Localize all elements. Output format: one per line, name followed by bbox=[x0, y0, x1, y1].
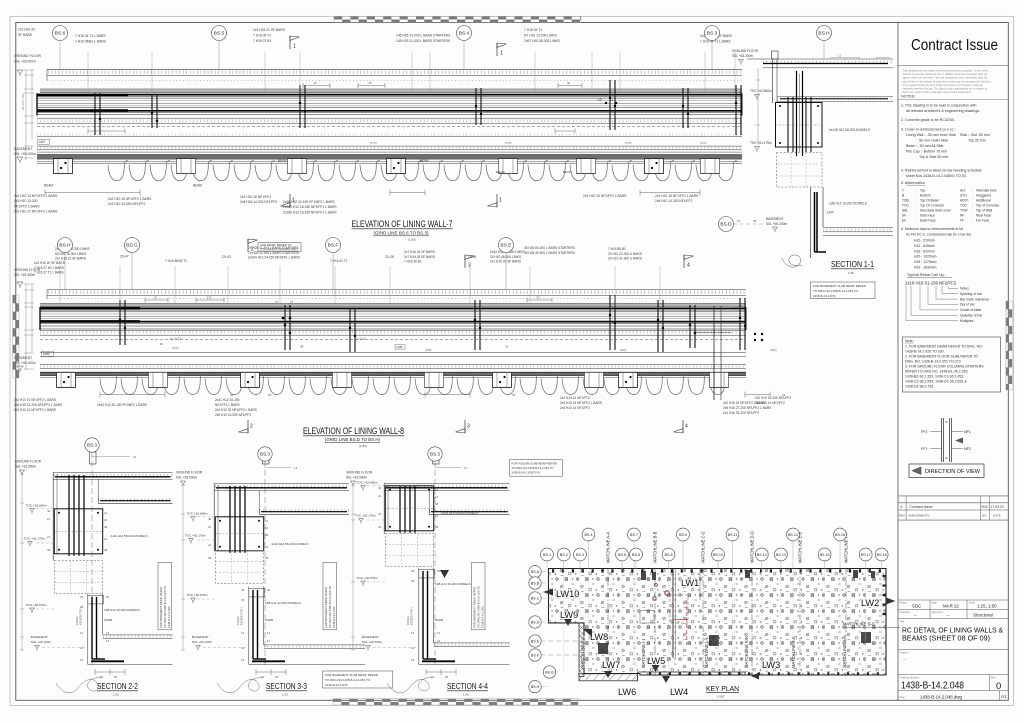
svg-text:13B H12 19-200 DOWELS: 13B H12 19-200 DOWELS bbox=[104, 608, 140, 612]
svg-text:expressly permitted by law. Th: expressly permitted by law. The doing of… bbox=[903, 87, 988, 91]
svg-text:BS.H: BS.H bbox=[531, 685, 540, 689]
svg-text:(GRID LINE BS.D TO BS.H): (GRID LINE BS.D TO BS.H) bbox=[325, 437, 380, 442]
svg-text::: : bbox=[972, 209, 973, 213]
svg-text:11: 11 bbox=[610, 98, 614, 102]
svg-text:Checked: Checked bbox=[900, 610, 911, 614]
svg-text:21: 21 bbox=[265, 519, 269, 523]
section 3-3 grid line bbox=[263, 452, 270, 668]
svg-text:2. Concrete grade to be RC32/4: 2. Concrete grade to be RC32/40. bbox=[901, 118, 955, 122]
svg-text:Rev:: Rev: bbox=[991, 676, 997, 680]
svg-text:2: 2 bbox=[251, 247, 254, 253]
svg-text:Near Face: Near Face bbox=[976, 214, 992, 218]
svg-text:21: 21 bbox=[265, 545, 269, 549]
svg-text:BS.F: BS.F bbox=[531, 653, 540, 657]
matchline labels inside plan bbox=[580, 622, 900, 669]
svg-text:2. FOR BASEMENT FLOOR SLAB REF: 2. FOR BASEMENT FLOOR SLAB REFER TO bbox=[905, 355, 978, 359]
svg-text:ALT.: ALT. bbox=[960, 189, 966, 193]
svg-text:21: 21 bbox=[435, 488, 439, 492]
elevation wall-8 leader lines bbox=[60, 266, 660, 307]
svg-text:7 H16 88 B1: 7 H16 88 B1 bbox=[608, 247, 626, 251]
key plan internal grid verticals bbox=[564, 569, 882, 673]
podium slab refer note box bbox=[510, 460, 563, 477]
svg-text:38: 38 bbox=[265, 556, 269, 560]
section 2-2 column box bbox=[54, 509, 102, 554]
svg-text:14: 14 bbox=[411, 646, 415, 650]
section 1-1 break line bbox=[782, 255, 802, 267]
svg-text:12: 12 bbox=[133, 455, 137, 459]
svg-text:BS.3: BS.3 bbox=[430, 452, 440, 457]
svg-text:20 H10 23-300 U BARS: 20 H10 23-300 U BARS bbox=[608, 252, 642, 256]
svg-text:6: 6 bbox=[901, 505, 903, 509]
section 1-1 basement slab right bbox=[823, 228, 893, 236]
svg-text:TOC +60.975m: TOC +60.975m bbox=[187, 593, 209, 597]
svg-text:DIRECTION OF VIEW: DIRECTION OF VIEW bbox=[925, 469, 981, 475]
svg-text:1:25: 1:25 bbox=[282, 693, 288, 697]
svg-text:21: 21 bbox=[378, 512, 382, 516]
svg-text:1:25: 1:25 bbox=[848, 271, 854, 275]
svg-text:BS.3: BS.3 bbox=[576, 553, 584, 557]
svg-text:TOC +62.170m: TOC +62.170m bbox=[185, 534, 207, 538]
svg-text:EF: EF bbox=[902, 219, 906, 223]
svg-text:N7 H10 13-200 LINKS: N7 H10 13-200 LINKS bbox=[524, 34, 558, 38]
svg-text:Contract Issue: Contract Issue bbox=[911, 37, 998, 54]
svg-text:2x2 H16 20: 2x2 H16 20 bbox=[18, 28, 35, 32]
svg-text:BEAM: BEAM bbox=[563, 170, 572, 174]
svg-text:2x2 H10 13 NF1/FF2 L BARS: 2x2 H10 13 NF1/FF2 L BARS bbox=[14, 408, 56, 412]
svg-text:(125): (125) bbox=[172, 346, 179, 350]
svg-text:SSL +60.100m: SSL +60.100m bbox=[14, 361, 36, 365]
svg-text:AMENDMENTS: AMENDMENTS bbox=[908, 514, 929, 518]
svg-text:(1:50): (1:50) bbox=[408, 238, 416, 242]
section 3-3 wall verticals and rebar bbox=[214, 484, 564, 553]
section 4-4 basement slab bbox=[419, 643, 510, 665]
svg-text::: : bbox=[972, 214, 973, 218]
svg-text:38: 38 bbox=[104, 548, 108, 552]
section 3-3 annotation texts bbox=[208, 466, 308, 662]
svg-text:SSL +63.500m: SSL +63.500m bbox=[346, 476, 367, 480]
svg-text:---: --- bbox=[903, 657, 906, 661]
svg-text:14: 14 bbox=[411, 631, 415, 635]
section 4-4 bottom dims bbox=[426, 669, 456, 679]
LWB tag mid elev2 bbox=[395, 345, 405, 350]
svg-text:LW7: LW7 bbox=[39, 140, 46, 144]
svg-text:3LWB: 3LWB bbox=[265, 618, 273, 622]
svg-text:TOC +60.975m: TOC +60.975m bbox=[357, 576, 379, 580]
rebar labels above elevation wall-8 bbox=[14, 246, 642, 277]
svg-text:BS.16: BS.16 bbox=[835, 533, 845, 537]
elevation wall-8 scallop break row bbox=[100, 374, 729, 395]
svg-text:Alternate bars: Alternate bars bbox=[976, 189, 997, 193]
svg-text:1: 1 bbox=[499, 198, 502, 204]
svg-text:FOR BASEMENT SLAB REINF REFER: FOR BASEMENT SLAB REINF REFER bbox=[813, 284, 867, 288]
svg-text:BEAM: BEAM bbox=[44, 184, 53, 188]
section 2-2 basement slab bbox=[88, 635, 173, 665]
svg-text:1. This drawing is to be read: 1. This drawing is to be read in conjunc… bbox=[901, 104, 976, 108]
svg-text:Each Face: Each Face bbox=[920, 219, 936, 223]
svg-text:2x8 H16 27-200 NF1/FF2 L BARS: 2x8 H16 27-200 NF1/FF2 L BARS bbox=[723, 406, 771, 410]
svg-text:21: 21 bbox=[47, 517, 51, 521]
elevation wall-7 lower beam zone bbox=[37, 118, 742, 136]
svg-text::: : bbox=[972, 204, 973, 208]
svg-text:1438-B-14.2.048.dwg: 1438-B-14.2.048.dwg bbox=[920, 694, 963, 699]
svg-text:BEAM: BEAM bbox=[420, 159, 429, 163]
svg-text:NF1: NF1 bbox=[964, 430, 971, 434]
svg-text:15: 15 bbox=[100, 675, 104, 679]
svg-text:BS.D: BS.D bbox=[720, 222, 732, 228]
svg-text:2x7 H16 34 SF BARS: 2x7 H16 34 SF BARS bbox=[404, 250, 435, 254]
section 3-3 stem wall bbox=[249, 587, 266, 665]
svg-text:Contract Issue: Contract Issue bbox=[909, 505, 932, 509]
section 4-4 grid line bbox=[433, 452, 440, 668]
svg-text:2x16 H16 01-150 NF2/FF2: 2x16 H16 01-150 NF2/FF2 bbox=[905, 281, 957, 286]
contract issue header bbox=[898, 37, 1008, 66]
dim rows below elevation wall-7 bbox=[45, 190, 700, 196]
svg-text:40: 40 bbox=[378, 486, 382, 490]
key plan left grid bubbles bbox=[529, 565, 549, 692]
svg-text:2x104 H12 34-150 NF2/FF1 L BAR: 2x104 H12 34-150 NF2/FF1 L BARS bbox=[248, 256, 300, 260]
svg-text:12: 12 bbox=[275, 301, 279, 305]
small dims above wall band elev2 bbox=[145, 296, 763, 350]
svg-text:BS.A: BS.A bbox=[531, 570, 540, 574]
svg-text:STG.: STG. bbox=[960, 194, 968, 198]
svg-text:Bar mark reference: Bar mark reference bbox=[960, 297, 989, 301]
svg-text:Side Face: Side Face bbox=[920, 214, 935, 218]
svg-text:21: 21 bbox=[47, 535, 51, 539]
svg-text:2x2 H10 17 NF1/FF2 L BARS: 2x2 H10 17 NF1/FF2 L BARS bbox=[14, 210, 58, 214]
svg-text:Top & Side 50 mm: Top & Side 50 mm bbox=[919, 155, 948, 159]
elevation wall-8 beam boxes bbox=[57, 372, 76, 387]
svg-text::: : bbox=[916, 199, 917, 203]
svg-text:(345): (345) bbox=[620, 348, 627, 352]
svg-text:Quantity of bar: Quantity of bar bbox=[960, 314, 983, 318]
svg-text:15: 15 bbox=[261, 675, 265, 679]
section 3-3 basement slab bbox=[249, 645, 365, 665]
svg-text:SECTION 3-3: SECTION 3-3 bbox=[266, 681, 307, 691]
basement label elev2 bbox=[14, 356, 36, 365]
svg-text:25: 25 bbox=[445, 675, 449, 679]
svg-text:1. FOR BASEMENT BEAM REFER TO: 1. FOR BASEMENT BEAM REFER TO DRG. NO bbox=[905, 345, 982, 349]
svg-text:TOC +62.170m: TOC +62.170m bbox=[24, 537, 46, 541]
svg-text:As Per EC-2, Compression lap 5: As Per EC-2, Compression lap 51 x bar di… bbox=[906, 233, 971, 237]
svg-text:BASEMENT: BASEMENT bbox=[192, 635, 209, 639]
dim column elev2 bbox=[24, 284, 34, 370]
section 1-1 footing dotted box bbox=[777, 153, 823, 188]
svg-text:7 H16 36 B1: 7 H16 36 B1 bbox=[404, 260, 422, 264]
svg-text:11: 11 bbox=[290, 301, 294, 305]
key plan matchlines bbox=[608, 569, 846, 677]
svg-text:2x7 H16 35 SF BARS: 2x7 H16 35 SF BARS bbox=[404, 255, 435, 259]
left checker strip bbox=[13, 295, 19, 378]
svg-text:12: 12 bbox=[598, 98, 602, 102]
svg-text:10: 10 bbox=[737, 219, 741, 223]
svg-text:SSL +60.100m: SSL +60.100m bbox=[14, 152, 36, 156]
svg-text:2x43 H12 25-150 FF1/NF2 L BARS: 2x43 H12 25-150 FF1/NF2 L BARS bbox=[97, 403, 147, 407]
section 3-3 vertical refer box bbox=[323, 562, 337, 629]
svg-text:1438-B-14.2.2/26: 1438-B-14.2.2/26 bbox=[332, 606, 336, 628]
svg-text:or by means without the prior: or by means without the prior written pe… bbox=[903, 83, 984, 87]
svg-text:FOR BASEMENT SLAB REINF REFER: FOR BASEMENT SLAB REINF REFER bbox=[325, 673, 379, 677]
svg-text:GB OPP SIM: GB OPP SIM bbox=[21, 93, 25, 110]
svg-text:BS.12: BS.12 bbox=[757, 553, 767, 557]
svg-text:3: 3 bbox=[468, 263, 471, 269]
paren labels elev1 bbox=[370, 141, 707, 145]
svg-text:Multiples: Multiples bbox=[960, 319, 974, 323]
svg-text:2x2 H10 16 NF1/FF3: 2x2 H10 16 NF1/FF3 bbox=[240, 195, 271, 199]
svg-text:1:25: 1:25 bbox=[463, 693, 469, 697]
svg-text::: : bbox=[972, 194, 973, 198]
svg-text:2x6 H10 14 NF1/FF2: 2x6 H10 14 NF1/FF2 bbox=[560, 406, 590, 410]
svg-text:BS.4: BS.4 bbox=[585, 533, 593, 537]
svg-text:Additional: Additional bbox=[976, 199, 991, 203]
svg-text:BY: BY bbox=[983, 514, 987, 518]
svg-text:BS.3: BS.3 bbox=[707, 31, 718, 37]
svg-text:21: 21 bbox=[435, 514, 439, 518]
svg-text:2x2 H10 14-200 NF1/FF2: 2x2 H10 14-200 NF1/FF2 bbox=[755, 396, 791, 400]
svg-text::: : bbox=[972, 189, 973, 193]
section flags elevation 1 bbox=[290, 36, 300, 50]
svg-text:(5): (5) bbox=[505, 345, 508, 349]
svg-text:Bottom: Bottom bbox=[920, 194, 931, 198]
svg-text:SSL +63.000m: SSL +63.000m bbox=[14, 60, 36, 64]
svg-text:Beam :- 50 mm All Side: Beam :- 50 mm All Side bbox=[906, 144, 944, 148]
svg-text:Date: Date bbox=[932, 601, 938, 605]
section 4-4 stem wall bbox=[419, 568, 436, 665]
svg-text:14: 14 bbox=[80, 631, 84, 635]
svg-text::: : bbox=[916, 219, 917, 223]
svg-text:LW8: LW8 bbox=[590, 632, 608, 642]
svg-text:NOTES:: NOTES: bbox=[901, 94, 915, 99]
svg-text:7 H16 41 T1: 7 H16 41 T1 bbox=[330, 259, 348, 263]
grid bubble BS.D bbox=[719, 217, 734, 232]
typical rebar call up bbox=[905, 273, 989, 323]
section 2-2 title bbox=[97, 681, 138, 697]
svg-text:BS.18: BS.18 bbox=[877, 553, 887, 557]
svg-text:SSL +60.300m: SSL +60.300m bbox=[766, 222, 787, 226]
refer note box (under section 1-1) bbox=[811, 282, 876, 299]
elevation wall-7 basement slab band bbox=[37, 146, 742, 164]
section 3-3 level dashed lines bbox=[197, 517, 249, 648]
key plan LW marker triangles bbox=[440, 570, 896, 683]
svg-text:1438-B-14.2.048: 1438-B-14.2.048 bbox=[901, 681, 964, 692]
svg-text:Drawn: Drawn bbox=[900, 601, 908, 605]
labels below elevation wall-8 bbox=[14, 396, 791, 417]
svg-text:2x2 H16 21 SF BARS: 2x2 H16 21 SF BARS bbox=[55, 257, 86, 261]
svg-text:BS.G: BS.G bbox=[126, 243, 138, 249]
matchline labels top bbox=[606, 531, 849, 563]
svg-text:MATCHLINE K-K: MATCHLINE K-K bbox=[744, 636, 749, 668]
svg-text:KICKER (TYP.): KICKER (TYP.) bbox=[410, 607, 414, 625]
svg-text:Approved: Approved bbox=[932, 610, 944, 614]
title block divider bbox=[897, 23, 899, 701]
svg-text:7 H16 04 T1 L BARS: 7 H16 04 T1 L BARS bbox=[700, 40, 731, 44]
svg-text:This drawing and any related n: This drawing and any related notes are p… bbox=[903, 69, 989, 73]
svg-text:SSL +60.100m: SSL +60.100m bbox=[31, 640, 52, 644]
svg-text:FF1: FF1 bbox=[921, 447, 927, 451]
section 4-4 level dashed lines bbox=[367, 486, 419, 648]
svg-text:2x41 H12 34-150: 2x41 H12 34-150 bbox=[215, 398, 240, 402]
svg-text:BEAMS (SHEET 08 OF 09): BEAMS (SHEET 08 OF 09) bbox=[902, 634, 990, 643]
svg-text:3. FOR GROUND FLOOR COLUMNS ST: 3. FOR GROUND FLOOR COLUMNS STARTERS bbox=[905, 365, 984, 369]
svg-text:Lining Wall :- 35 mm Inner Sid: Lining Wall :- 35 mm Inner Side bbox=[906, 133, 956, 137]
section 2-2 break line bbox=[56, 678, 102, 693]
svg-text:ELEVATION OF LINING WALL-8: ELEVATION OF LINING WALL-8 bbox=[303, 426, 404, 437]
svg-text:21: 21 bbox=[208, 543, 212, 547]
svg-text:LW3: LW3 bbox=[762, 660, 780, 670]
svg-text:TOC: TOC bbox=[960, 204, 968, 208]
svg-text:08: 08 bbox=[104, 525, 108, 529]
svg-text:BS.17: BS.17 bbox=[861, 553, 871, 557]
svg-text:NF1/FF2 L BARS: NF1/FF2 L BARS bbox=[14, 204, 40, 208]
svg-text:100mm: 100mm bbox=[236, 616, 240, 625]
svg-text:2x20 H12 58-200 DOWELS: 2x20 H12 58-200 DOWELS bbox=[111, 534, 148, 538]
svg-text:Top Of Beam: Top Of Beam bbox=[920, 199, 939, 203]
grid bubble BS.G keyplan bbox=[543, 666, 555, 678]
svg-text:15: 15 bbox=[431, 675, 435, 679]
svg-text:BS.3: BS.3 bbox=[260, 452, 270, 457]
columns starters ref box bbox=[258, 243, 301, 252]
section 3-3 left dim line bbox=[181, 485, 185, 650]
svg-text:Scale: Scale bbox=[969, 601, 976, 605]
svg-text:21: 21 bbox=[378, 494, 382, 498]
svg-text:2x2 H10 15 NF1/FF2 L BARS: 2x2 H10 15 NF1/FF2 L BARS bbox=[655, 194, 699, 198]
svg-text:LW2: LW2 bbox=[861, 598, 879, 608]
svg-text:2x3 H10 14-200 NF1/FF2: 2x3 H10 14-200 NF1/FF2 bbox=[108, 202, 146, 206]
svg-text:38: 38 bbox=[435, 525, 439, 529]
svg-text:12B H12 19-200 DOWELS: 12B H12 19-200 DOWELS bbox=[829, 202, 867, 206]
svg-text:FOR PODIUM SLAB REINF REFER: FOR PODIUM SLAB REINF REFER bbox=[512, 461, 557, 465]
svg-text:GROUND FLOOR: GROUND FLOOR bbox=[176, 471, 203, 475]
svg-text:SECTION 1-1: SECTION 1-1 bbox=[831, 260, 874, 269]
svg-text:10: 10 bbox=[265, 526, 269, 530]
svg-text:NF: NF bbox=[960, 214, 964, 218]
svg-text:14: 14 bbox=[267, 639, 271, 643]
svg-text:GROUND FLOOR: GROUND FLOOR bbox=[14, 54, 42, 58]
svg-text:REV: REV bbox=[899, 514, 905, 518]
svg-text:ELEVATION OF LINING WALL-7: ELEVATION OF LINING WALL-7 bbox=[352, 219, 453, 230]
svg-text:0: 0 bbox=[996, 680, 1001, 691]
svg-text:21: 21 bbox=[104, 511, 108, 515]
svg-text:BS.5: BS.5 bbox=[214, 31, 225, 37]
svg-text:TO DRG.NO.1438-B-14.2.081 TO: TO DRG.NO.1438-B-14.2.081 TO bbox=[512, 466, 555, 470]
svg-text:1438-C2-36.2.553, 1438-D1-36.2: 1438-C2-36.2.553, 1438-D1-36.2.653 & bbox=[905, 380, 967, 384]
svg-text:FF2: FF2 bbox=[921, 430, 927, 434]
svg-text:TOC +60.975m: TOC +60.975m bbox=[26, 603, 48, 607]
svg-text:Staggered: Staggered bbox=[976, 194, 991, 198]
svg-text:Structural Slab Level: Structural Slab Level bbox=[920, 209, 951, 213]
svg-text:2x145 H12 58-200 DOWELS: 2x145 H12 58-200 DOWELS bbox=[829, 128, 870, 132]
svg-text:12: 12 bbox=[294, 466, 298, 470]
svg-text:12: 12 bbox=[838, 54, 842, 58]
section 2-2 level dashed lines bbox=[36, 509, 88, 648]
svg-text:LW5: LW5 bbox=[647, 656, 665, 666]
svg-text:145 H25 13-200 L BARS STARTERS: 145 H25 13-200 L BARS STARTERS bbox=[396, 34, 451, 38]
key plan top grid bubbles row 1 bbox=[582, 528, 846, 568]
svg-text:4: 4 bbox=[687, 263, 690, 269]
revision table bbox=[898, 496, 1008, 520]
svg-text:2x3 H10 13-200: 2x3 H10 13-200 bbox=[14, 199, 38, 203]
svg-text:BS.11: BS.11 bbox=[728, 533, 738, 537]
svg-text:(175): (175) bbox=[625, 141, 632, 145]
svg-text:BS.F: BS.F bbox=[328, 243, 339, 249]
grid bubble BS.3 over section 2-2 bbox=[85, 438, 99, 452]
section 3-3 ground slab bbox=[214, 484, 349, 515]
grid bubble BS.4 bbox=[457, 26, 472, 41]
svg-text:4: 4 bbox=[685, 424, 688, 430]
svg-text:Pile Cap :- Bottom 75 mm: Pile Cap :- Bottom 75 mm bbox=[906, 150, 947, 154]
elevation wall-8 title bbox=[303, 426, 404, 448]
svg-text:TOC +62.800m: TOC +62.800m bbox=[187, 512, 209, 516]
key plan LW labels bbox=[556, 578, 879, 697]
svg-text:SSL +60.100m: SSL +60.100m bbox=[362, 640, 383, 644]
section 4-4 wall verticals and rebar bbox=[384, 484, 533, 534]
svg-text:BEAM: BEAM bbox=[193, 184, 202, 188]
svg-text:1438-B-14.2.105(TYP.): 1438-B-14.2.105(TYP.) bbox=[512, 471, 541, 475]
svg-text:2x20 H12 58-200 DOWELS: 2x20 H12 58-200 DOWELS bbox=[442, 511, 479, 515]
elevation wall-7 leader lines bbox=[88, 52, 735, 93]
svg-text:SECTION 4-4: SECTION 4-4 bbox=[447, 681, 488, 691]
svg-text:BS.3: BS.3 bbox=[87, 443, 97, 448]
section 2-2 stem wall bbox=[88, 594, 105, 665]
svg-text:4. Reinforcement is listed on: 4. Reinforcement is listed on bar bendin… bbox=[901, 169, 982, 173]
svg-text:Top Of Concrete: Top Of Concrete bbox=[920, 204, 944, 208]
svg-text::: : bbox=[916, 209, 917, 213]
svg-text:1: 1 bbox=[293, 44, 296, 50]
top checker strip bbox=[334, 16, 581, 22]
svg-text:14: 14 bbox=[106, 639, 110, 643]
elevation wall-8 vertical rebar groups bbox=[119, 300, 126, 345]
basement slab refer note box below section 3-3 bbox=[323, 671, 393, 688]
svg-text:30: 30 bbox=[267, 588, 271, 592]
svg-text:13B H12 19-200 DOWELS: 13B H12 19-200 DOWELS bbox=[265, 601, 301, 605]
svg-text:KICKER (TYP.): KICKER (TYP.) bbox=[240, 607, 244, 625]
svg-text:H16 - 820mm: H16 - 820mm bbox=[914, 249, 935, 253]
svg-text:15: 15 bbox=[80, 658, 84, 662]
section 1-1 title bbox=[831, 260, 874, 275]
svg-text:13B H12 19-200 DOWELS: 13B H12 19-200 DOWELS bbox=[435, 582, 471, 586]
svg-text:rights in them are reserved. T: rights in them are reserved. They are pr… bbox=[903, 76, 988, 80]
svg-text:30: 30 bbox=[106, 595, 110, 599]
svg-text:MATCHLINE D-D: MATCHLINE D-D bbox=[750, 531, 755, 563]
svg-text:08: 08 bbox=[753, 219, 757, 223]
svg-text:LW9: LW9 bbox=[560, 610, 578, 620]
svg-text:3LWB: 3LWB bbox=[435, 618, 443, 622]
svg-text:1438-D2-36.2.753.: 1438-D2-36.2.753. bbox=[905, 385, 934, 389]
svg-text:Drawing Number:: Drawing Number: bbox=[900, 676, 920, 680]
svg-text:sheet Nos.1438-B-14.2.048/01 T: sheet Nos.1438-B-14.2.048/01 TO 03. bbox=[906, 174, 967, 178]
svg-text:39: 39 bbox=[47, 548, 51, 552]
svg-text:2x2 H10 13 NF1/FF2 L BARS: 2x2 H10 13 NF1/FF2 L BARS bbox=[14, 194, 58, 198]
section 4-4 break line bbox=[387, 678, 433, 693]
svg-text:Typical Rebar Call Up:: Typical Rebar Call Up: bbox=[907, 273, 945, 277]
grid bubble BS.H top bbox=[817, 26, 832, 41]
svg-text:Dia of bar: Dia of bar bbox=[960, 303, 976, 307]
rebar labels above elevation wall-7 bbox=[14, 28, 733, 64]
svg-text:MATCHLINE C-C: MATCHLINE C-C bbox=[701, 531, 706, 563]
dim rows below elevation wall-8 bbox=[100, 392, 786, 398]
svg-text:BASEMENT: BASEMENT bbox=[14, 147, 32, 151]
grid bubble BS.3 over section 4-4 bbox=[428, 447, 442, 461]
svg-text:14: 14 bbox=[267, 631, 271, 635]
svg-text:(345): (345) bbox=[770, 348, 777, 352]
svg-text:SSL +63.500m: SSL +63.500m bbox=[15, 465, 36, 469]
section 2-2 ground slab bbox=[53, 473, 172, 504]
section 3-3 footing dotted box bbox=[215, 551, 263, 584]
svg-text:2x2 H16 20 SF BARS: 2x2 H16 20 SF BARS bbox=[34, 261, 65, 265]
svg-text:145 H25 11-200 L BARS STARTERS: 145 H25 11-200 L BARS STARTERS bbox=[396, 39, 451, 43]
svg-text:5. Abbreviation: 5. Abbreviation bbox=[901, 181, 925, 185]
svg-text:2x6 H10 14-200 NF1/FF2: 2x6 H10 14-200 NF1/FF2 bbox=[655, 199, 693, 203]
svg-text::: : bbox=[916, 194, 917, 198]
